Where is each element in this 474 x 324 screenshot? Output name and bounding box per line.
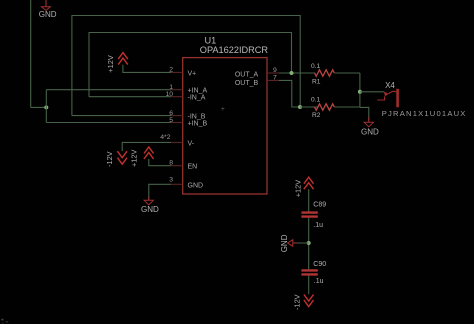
svg-text:9: 9 [273, 67, 277, 74]
wire to jack tip [360, 91, 384, 93]
connector X4 jack [377, 89, 399, 108]
svg-text:3: 3 [169, 177, 173, 184]
pin 2 stub [171, 71, 183, 73]
svg-text:4*2: 4*2 [160, 134, 170, 141]
svg-text:7: 7 [273, 74, 277, 81]
wire pin 3 GND down [149, 184, 171, 200]
svg-text:GND: GND [39, 10, 57, 19]
svg-text:2: 2 [169, 66, 173, 73]
svg-text:GND: GND [188, 182, 204, 189]
ground under U1 [144, 197, 153, 205]
ground at capacitor midpoint [288, 240, 297, 247]
svg-text:1: 1 [169, 84, 173, 91]
svg-text:+IN_A: +IN_A [188, 88, 208, 95]
ground top left [42, 0, 51, 10]
svg-text:-12V: -12V [293, 294, 302, 310]
svg-text:U1: U1 [205, 35, 217, 45]
node OUT_A junction [290, 71, 294, 75]
resistor R1 [315, 70, 335, 76]
resistor R2 [315, 104, 335, 110]
svg-text:OUT_A: OUT_A [235, 72, 259, 79]
wire feedback A inner loop [89, 33, 292, 97]
svg-text:EN: EN [188, 164, 198, 171]
wire +12V to pin 2 V+ [123, 65, 171, 73]
svg-text:0.1: 0.1 [311, 96, 320, 103]
wire output column [359, 73, 361, 107]
svg-text:5: 5 [169, 117, 173, 124]
wire C89 to mid node [308, 218, 310, 269]
power +12V chevron (EN pin) [144, 147, 154, 159]
wire to pin 1 +IN_A [46, 89, 171, 91]
node input junction [44, 105, 48, 109]
node OUT_B junction [298, 105, 302, 109]
wire V1 input column [30, 0, 32, 107]
pin 4*2 stub [171, 141, 183, 143]
svg-text:GND: GND [280, 234, 289, 252]
wire V2 to +IN pins [45, 90, 47, 123]
power +12V chevron (C89) [304, 177, 314, 189]
pin 7 stub [267, 79, 279, 81]
svg-text:V+: V+ [188, 70, 197, 77]
power +12V top chevron [118, 53, 128, 65]
svg-text:+12V: +12V [129, 149, 138, 167]
svg-text:+: + [221, 106, 225, 113]
pin 6 stub [171, 115, 183, 117]
power -12V chevron (V- pin) [117, 151, 127, 164]
svg-text:+12V: +12V [106, 55, 115, 73]
svg-text:OUT_B: OUT_B [235, 80, 259, 87]
wire mid node to GND [293, 242, 309, 244]
svg-text:GND: GND [361, 127, 379, 136]
svg-text:C89: C89 [313, 201, 326, 208]
pin 10 stub [171, 96, 183, 98]
wire input horizontal to node [31, 106, 47, 108]
wire OUT_B bend to R2 [279, 80, 300, 107]
svg-text:PJRAN1X1U01AUX: PJRAN1X1U01AUX [382, 109, 467, 118]
pin 9 stub [267, 72, 279, 74]
power -12V chevron (C90) [304, 295, 314, 307]
wire to pin 5 +IN_B [46, 122, 171, 124]
svg-text:R1: R1 [312, 79, 321, 86]
wire +12V to C89 [308, 189, 310, 211]
wire feedback B outer loop [72, 16, 300, 116]
svg-text:R2: R2 [312, 112, 321, 119]
svg-text:V-: V- [188, 140, 195, 147]
svg-text:OPA1622IDRCR: OPA1622IDRCR [200, 45, 269, 55]
node capacitor midpoint [307, 241, 311, 245]
svg-text:.1u: .1u [314, 278, 324, 285]
svg-text:GND: GND [141, 205, 159, 214]
wire OUT_A to R1 [279, 72, 316, 74]
wire to pin 6 -IN_B [72, 115, 171, 117]
svg-text:6: 6 [169, 110, 173, 117]
pin 8 stub [171, 165, 183, 167]
wire +12V to pin 8 EN [149, 159, 171, 166]
svg-text:+IN_B: +IN_B [188, 121, 208, 128]
svg-text:10: 10 [165, 91, 173, 98]
svg-text:-12V: -12V [105, 151, 114, 167]
capacitor C90 [301, 270, 317, 274]
svg-text:+12V: +12V [294, 180, 303, 198]
wire R1 to output column [335, 72, 360, 74]
svg-text:8: 8 [169, 160, 173, 167]
wire jack to ground [360, 107, 369, 120]
wire to pin 10 -IN_A [89, 96, 171, 98]
cursor artifact bottom left [1, 319, 8, 324]
wire C90 to -12V [308, 276, 310, 295]
op-amp U1 body [183, 58, 267, 194]
pin 3 stub [171, 183, 183, 185]
wire -12V to pin V- [122, 142, 171, 151]
pin 1 stub [171, 89, 183, 91]
svg-text:0.1: 0.1 [311, 63, 320, 70]
wire R2 to output column [335, 106, 360, 108]
svg-text:.1u: .1u [313, 222, 323, 229]
ground under jack [364, 117, 373, 127]
node output junction [358, 90, 362, 94]
svg-text:-IN_A: -IN_A [188, 95, 206, 102]
svg-text:X4: X4 [385, 81, 395, 90]
pin 5 stub [171, 122, 183, 124]
capacitor C89 [301, 213, 317, 217]
wire node to R2 [300, 106, 318, 108]
svg-text:C90: C90 [313, 261, 326, 268]
